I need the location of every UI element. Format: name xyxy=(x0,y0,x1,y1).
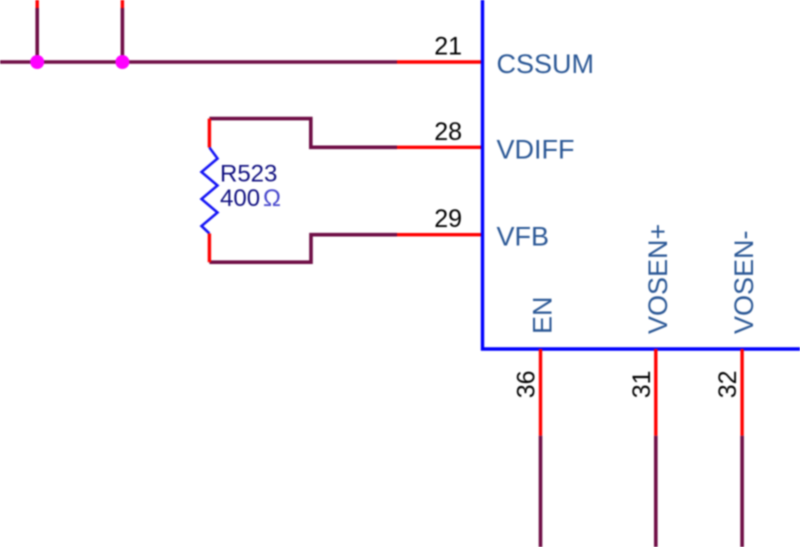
wire EN net xyxy=(539,436,543,547)
svg-text:36: 36 xyxy=(513,370,541,398)
pin 21 stub (CSSUM) xyxy=(397,60,482,63)
resistor R523 xyxy=(202,119,218,263)
pin 32 stub (VOSEN-) xyxy=(740,349,743,436)
svg-text:R523: R523 xyxy=(220,161,277,188)
svg-text:VOSEN-: VOSEN- xyxy=(729,230,759,334)
pin 36 stub (EN) xyxy=(539,349,542,436)
pin stub top of branch 2 xyxy=(121,0,124,8)
svg-text:21: 21 xyxy=(434,33,462,61)
wire VDIFF net xyxy=(209,119,397,148)
wire VOSEN+ net xyxy=(654,436,658,547)
IC U1 body outline xyxy=(483,0,800,349)
pin stub top of branch 1 xyxy=(36,0,39,8)
svg-text:VOSEN+: VOSEN+ xyxy=(643,224,673,334)
wire vertical branch 2 xyxy=(121,8,125,63)
wire VFB net xyxy=(209,235,397,263)
junction dot 1 xyxy=(30,55,44,69)
pin 31 stub (VOSEN+) xyxy=(654,349,657,436)
junction dot 2 xyxy=(115,55,129,69)
svg-text:400Ω: 400Ω xyxy=(220,185,281,212)
svg-text:31: 31 xyxy=(628,370,656,398)
svg-text:EN: EN xyxy=(528,296,558,334)
pin 29 stub (VFB) xyxy=(397,233,482,236)
svg-text:VDIFF: VDIFF xyxy=(497,134,575,164)
svg-text:VFB: VFB xyxy=(497,222,550,252)
wire CSSUM net horizontal xyxy=(0,60,397,64)
wire vertical branch 1 xyxy=(35,8,39,63)
svg-text:28: 28 xyxy=(434,118,462,146)
pin 28 stub (VDIFF) xyxy=(397,146,482,149)
svg-text:32: 32 xyxy=(714,370,742,398)
wire VOSEN- net xyxy=(740,436,744,547)
svg-text:29: 29 xyxy=(434,205,462,233)
svg-text:CSSUM: CSSUM xyxy=(497,49,595,79)
